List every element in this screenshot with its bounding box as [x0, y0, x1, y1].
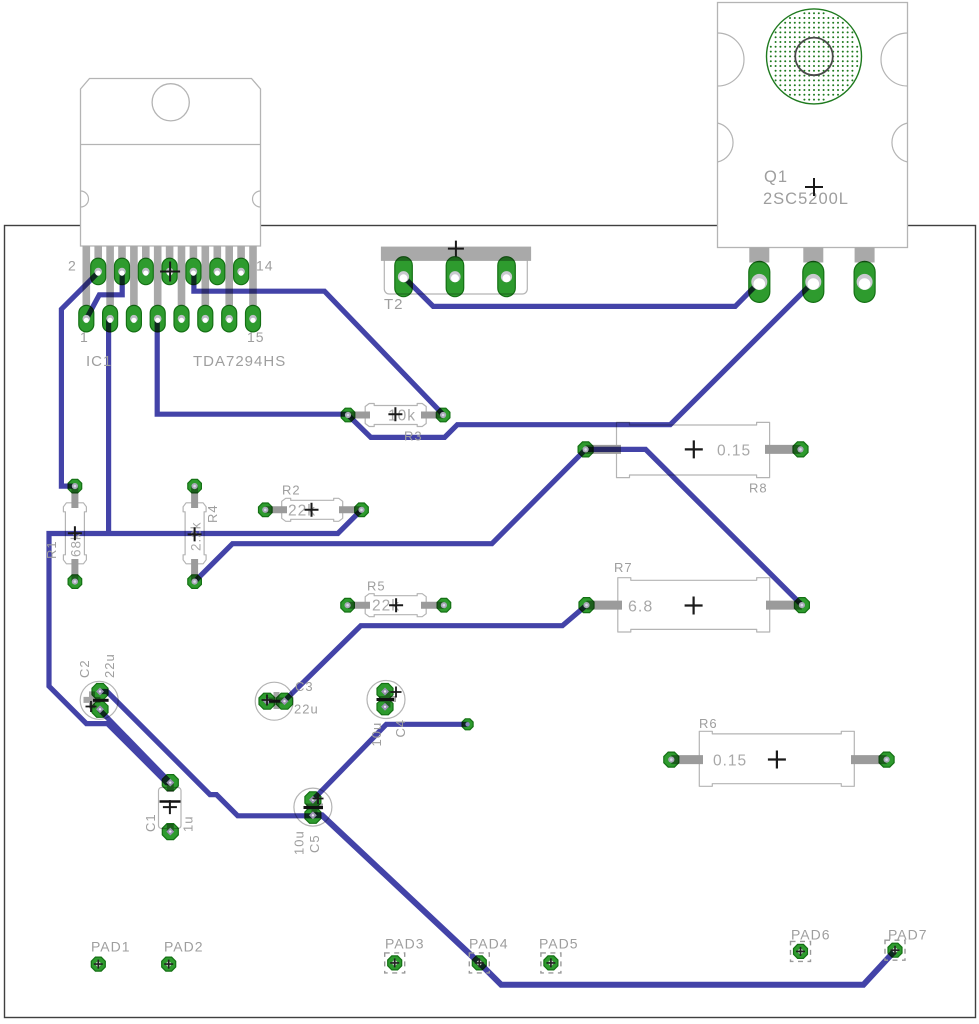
svg-text:Q1: Q1 [764, 168, 788, 186]
svg-text:C2: C2 [77, 659, 92, 678]
svg-text:6.8: 6.8 [628, 599, 653, 616]
svg-text:PAD2: PAD2 [164, 939, 204, 955]
svg-text:1: 1 [80, 329, 89, 345]
svg-text:R4: R4 [205, 504, 220, 523]
svg-text:15: 15 [247, 329, 265, 345]
svg-text:PAD1: PAD1 [91, 939, 131, 955]
svg-text:R8: R8 [749, 481, 768, 496]
svg-text:68k: 68k [69, 532, 84, 557]
svg-text:R5: R5 [367, 579, 386, 594]
svg-text:1u: 1u [181, 816, 196, 832]
svg-text:2.2k: 2.2k [189, 521, 204, 551]
svg-text:22u: 22u [294, 702, 319, 717]
svg-text:C5: C5 [307, 834, 322, 853]
svg-text:2SC5200L: 2SC5200L [763, 190, 849, 208]
svg-text:R7: R7 [614, 560, 633, 575]
svg-text:R2: R2 [282, 483, 301, 498]
svg-text:10u: 10u [369, 722, 384, 747]
svg-text:C1: C1 [143, 813, 158, 832]
svg-text:IC1: IC1 [86, 353, 112, 370]
svg-text:PAD4: PAD4 [469, 936, 509, 952]
svg-text:R1: R1 [44, 540, 59, 559]
svg-text:TDA7294HS: TDA7294HS [193, 353, 286, 370]
svg-text:PAD6: PAD6 [791, 927, 831, 943]
svg-text:10k: 10k [388, 408, 416, 425]
svg-text:0.15: 0.15 [713, 753, 747, 770]
svg-text:T2: T2 [384, 296, 404, 313]
svg-text:C4: C4 [393, 719, 408, 738]
svg-text:2: 2 [68, 258, 77, 274]
svg-text:R6: R6 [699, 716, 718, 731]
svg-text:PAD5: PAD5 [539, 936, 579, 952]
svg-text:R3: R3 [404, 429, 423, 444]
svg-text:C3: C3 [295, 679, 314, 694]
svg-text:14: 14 [256, 258, 274, 274]
svg-text:PAD7: PAD7 [888, 927, 928, 943]
svg-text:0.15: 0.15 [717, 443, 751, 460]
svg-text:PAD3: PAD3 [385, 936, 425, 952]
svg-text:22u: 22u [102, 653, 117, 678]
svg-text:10u: 10u [292, 830, 307, 855]
